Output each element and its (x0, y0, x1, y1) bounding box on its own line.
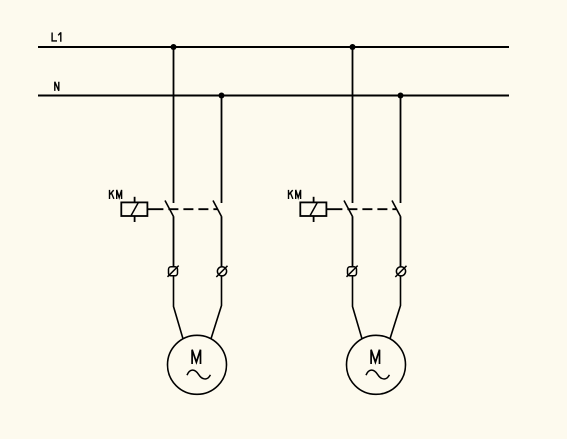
label KM (branch 1) (110, 190, 122, 199)
junction: branch 2 tap on N (398, 93, 404, 99)
contact KM (branch 2, neutral): moving blade (392, 201, 401, 217)
wire: N to contact KM (branch 1, neutral side) (221, 96, 223, 204)
wire: contact to terminal (branch 1 neutral) (221, 216, 223, 267)
bus N (38, 95, 509, 97)
motor M2 (347, 335, 406, 394)
wire: terminal to motor M1 (phase lead) (174, 276, 184, 339)
wire: terminal to motor M2 (phase lead) (353, 276, 363, 339)
terminal (branch 1 phase): box with slash (168, 266, 179, 277)
label N (55, 82, 59, 91)
wire: contact to terminal (branch 2 phase) (352, 216, 354, 267)
label KM (branch 2) (289, 190, 301, 199)
junction: branch 1 tap on N (219, 93, 225, 99)
bus L1 (38, 46, 509, 48)
contactor coil KM (branch 1) (121, 197, 147, 222)
contact KM (branch 1, phase): moving blade (165, 201, 174, 217)
mechanical link (dashed) coil KM to contacts (branch 2) (326, 208, 396, 210)
terminal (branch 2 neutral): circle with slash (395, 266, 406, 277)
terminal (branch 1 neutral): circle with slash (216, 266, 227, 277)
contact KM (branch 2, phase): moving blade (344, 201, 353, 217)
wire: L1 to contact KM (branch 1, phase side) (173, 47, 175, 203)
contactor coil KM (branch 2) (300, 197, 326, 222)
motor M1 (168, 335, 227, 394)
wire: terminal to motor M1 (neutral lead) (211, 276, 222, 339)
wire: L1 to contact KM (branch 2, phase side) (352, 47, 354, 203)
wire: terminal to motor M2 (neutral lead) (390, 276, 401, 339)
wire: N to contact KM (branch 2, neutral side) (400, 96, 402, 204)
label L1 (52, 32, 61, 41)
contact KM (branch 1, neutral): moving blade (213, 201, 222, 217)
terminal (branch 2 phase): box with slash (347, 266, 358, 277)
wire: contact to terminal (branch 2 neutral) (400, 216, 402, 267)
wire: contact to terminal (branch 1 phase) (173, 216, 175, 267)
junction: branch 2 tap on L1 (350, 44, 356, 50)
junction: branch 1 tap on L1 (171, 44, 177, 50)
mechanical link (dashed) coil KM to contacts (branch 1) (147, 208, 217, 210)
